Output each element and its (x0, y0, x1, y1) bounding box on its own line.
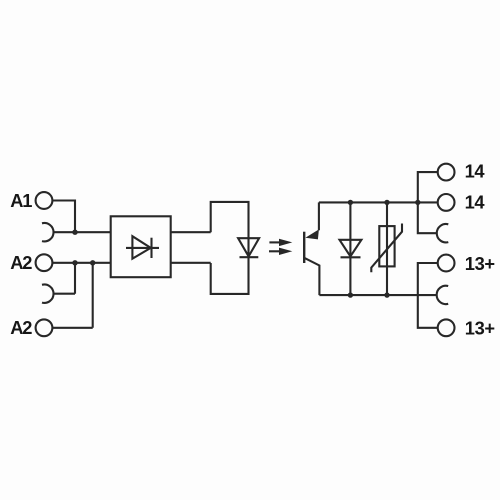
phototransistor Q1 base bar (303, 232, 305, 263)
junction dot A2/A2 bottom (90, 260, 95, 265)
bottom rail wire (319, 294, 436, 296)
terminal A1 (36, 192, 53, 209)
terminal 14 (second) (438, 194, 455, 211)
junction dot top rail / diode (348, 200, 353, 205)
light arrow 1 (269, 239, 292, 246)
wire socket1 to box upper pin (54, 231, 111, 233)
branch wire to 14 terminals (418, 172, 437, 233)
label 14 (second) (465, 191, 486, 212)
junction dot A2/socket2 (72, 260, 77, 265)
phototransistor collector lead with arrow (305, 202, 319, 239)
socket contact under A1 (42, 223, 54, 241)
svg-text:13+: 13+ (465, 317, 495, 338)
freewheeling diode D2 wire (349, 202, 351, 295)
wire junction down to A2 bottom (53, 263, 93, 328)
diode D1 inside box (126, 236, 159, 259)
terminal 13+ (bottom) (438, 319, 455, 336)
phototransistor emitter lead (304, 258, 319, 295)
light arrow 2 (269, 248, 292, 255)
junction dot bottom rail / diode (348, 292, 353, 297)
wire A2 to box lower pin (53, 262, 111, 264)
terminal A2 (36, 254, 53, 271)
svg-text:14: 14 (465, 161, 486, 182)
junction dot top rail / varistor (384, 200, 389, 205)
label A2 (10, 252, 32, 273)
label 13+ (bottom) (465, 317, 495, 338)
svg-text:A1: A1 (10, 190, 32, 211)
socket contact under A2 (42, 285, 54, 303)
junction dot top rail / terminal branch (415, 200, 420, 205)
socket contact 13+ group (437, 286, 449, 304)
label 13+ (upper) (465, 253, 495, 274)
terminal A2 (bottom) (36, 319, 53, 336)
wire junction down to socket2 (54, 263, 75, 294)
label A1 (10, 190, 32, 211)
junction dot A1/socket (72, 230, 77, 235)
freewheeling diode D2 (340, 240, 362, 257)
label 14 (top) (465, 161, 486, 182)
svg-text:14: 14 (465, 191, 486, 212)
branch wire to 13+ terminals (418, 263, 437, 328)
label A2 (bottom) (10, 317, 32, 338)
wire box to LED block upper (171, 231, 211, 233)
junction dot bottom rail / varistor (384, 292, 389, 297)
optocoupler LED block outline (211, 202, 249, 294)
wire A1 to junction (53, 201, 75, 233)
svg-text:13+: 13+ (465, 253, 495, 274)
terminal 14 (top) (438, 164, 455, 181)
varistor R1 (371, 224, 402, 273)
terminal 13+ (upper) (438, 255, 455, 272)
socket contact 14 group (437, 224, 449, 242)
svg-text:A2: A2 (10, 252, 32, 273)
input rectifier box U1 (111, 216, 171, 277)
top rail wire (319, 201, 418, 203)
wire box to LED block lower (171, 262, 211, 264)
LED diode (238, 238, 259, 257)
varistor R1 wire (386, 202, 388, 295)
svg-text:A2: A2 (10, 317, 32, 338)
